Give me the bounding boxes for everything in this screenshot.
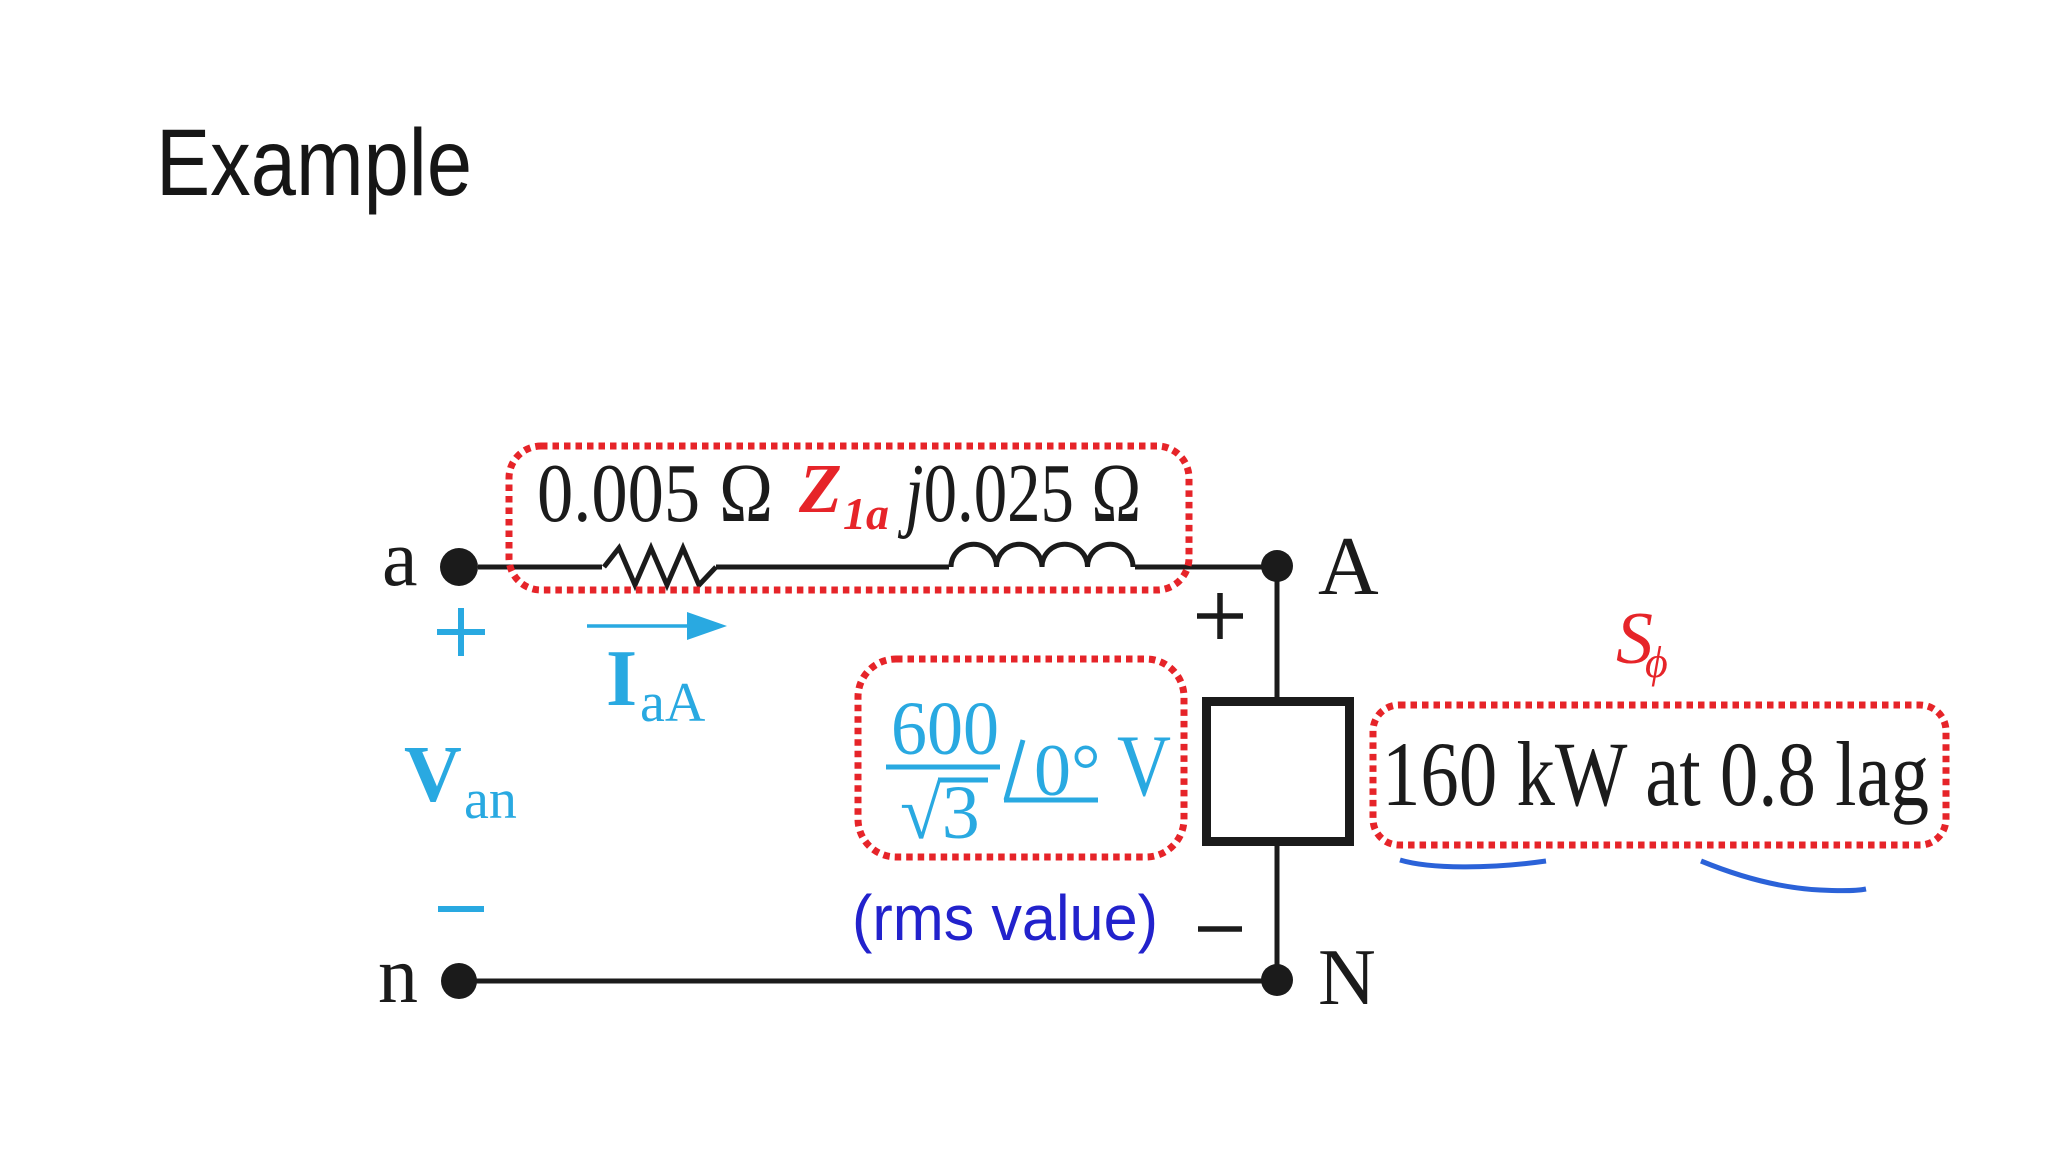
svg-text:600: 600 bbox=[891, 687, 999, 771]
svg-text:a: a bbox=[382, 515, 418, 603]
svg-text:aA: aA bbox=[640, 672, 706, 734]
svg-text:j0.025 Ω: j0.025 Ω bbox=[898, 447, 1142, 540]
svg-text:1a: 1a bbox=[843, 488, 889, 539]
svg-text:n: n bbox=[378, 932, 418, 1020]
svg-text:ϕ: ϕ bbox=[1645, 638, 1668, 687]
svg-text:0.005 Ω: 0.005 Ω bbox=[537, 447, 774, 540]
svg-text:an: an bbox=[464, 769, 517, 831]
svg-text:V: V bbox=[1117, 718, 1171, 815]
svg-text:160 kW at 0.8 lag: 160 kW at 0.8 lag bbox=[1382, 723, 1929, 825]
svg-text:N: N bbox=[1318, 934, 1376, 1022]
svg-text:√3: √3 bbox=[900, 771, 980, 855]
svg-text:Z: Z bbox=[798, 451, 842, 528]
svg-text:I: I bbox=[606, 635, 637, 723]
svg-text:(rms value): (rms value) bbox=[852, 882, 1158, 954]
svg-text:Example: Example bbox=[156, 110, 472, 216]
svg-text:A: A bbox=[1318, 520, 1379, 613]
svg-text:V: V bbox=[404, 731, 462, 819]
